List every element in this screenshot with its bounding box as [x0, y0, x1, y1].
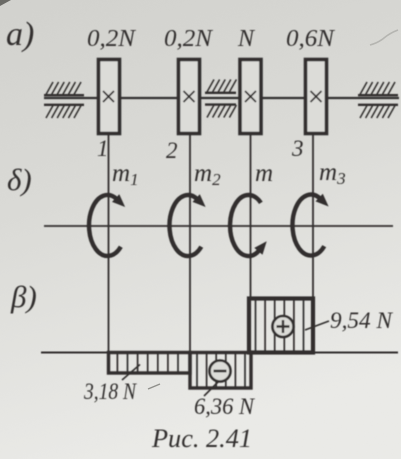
cross mark pulley 1: [103, 91, 114, 102]
moment arrow m1: [89, 194, 125, 256]
minus sign circle: [210, 361, 231, 382]
svg-text:0,2N: 0,2N: [164, 26, 214, 52]
svg-text:m: m: [255, 160, 273, 187]
section line 1: [108, 135, 110, 352]
torque rect 6,36N hatch: [197, 353, 245, 387]
plus sign circle: [273, 316, 294, 337]
cross mark pulley 2: [184, 91, 195, 102]
svg-text:9,54 N: 9,54 N: [330, 308, 394, 333]
leader 3,18N: [122, 365, 140, 381]
section line 3: [250, 135, 252, 298]
bearing left: [44, 82, 84, 118]
moment arrow m3: [292, 194, 328, 256]
shaft: [44, 97, 399, 99]
cross mark pulley 4: [311, 91, 322, 102]
faint smudge top-right: [370, 30, 398, 45]
svg-text:1: 1: [97, 136, 109, 161]
svg-text:2: 2: [166, 138, 178, 163]
torque rect 9,54N: [249, 299, 313, 353]
cross mark pulley 3: [245, 91, 256, 102]
svg-text:Рис. 2.41: Рис. 2.41: [151, 424, 252, 453]
pulley 3: [240, 60, 261, 134]
faint smudge mid-right: [148, 384, 160, 389]
section line 4: [312, 135, 314, 298]
bearing right: [358, 82, 398, 118]
leader 9,54N: [305, 321, 329, 330]
torque rect 3,18N: [109, 353, 191, 374]
torque rect 3,18N hatch: [117, 353, 178, 372]
torque diagram baseline: [41, 352, 398, 354]
axis of moments: [44, 225, 393, 227]
bearing middle: [205, 80, 236, 118]
torque rect 6,36N: [190, 353, 251, 389]
svg-text:β): β): [10, 279, 37, 314]
pulley 2: [179, 60, 200, 134]
svg-text:3,18 N: 3,18 N: [83, 379, 137, 404]
pulley 4: [306, 60, 327, 134]
svg-text:0,6N: 0,6N: [286, 26, 336, 52]
leader 6,36N: [204, 381, 219, 396]
torque rect 9,54N hatch: [256, 299, 304, 352]
moment arrow m (driving): [230, 195, 267, 256]
svg-text:N: N: [237, 26, 256, 52]
corner mark top-left: [0, 0, 11, 6]
svg-text:6,36 N: 6,36 N: [194, 394, 256, 419]
section line 2: [189, 135, 191, 352]
svg-text:δ): δ): [7, 162, 32, 197]
svg-text:3: 3: [291, 136, 304, 161]
pulley 1: [99, 60, 120, 134]
svg-text:0,2N: 0,2N: [87, 26, 137, 52]
svg-text:а): а): [6, 16, 34, 53]
moment arrow m2: [169, 194, 205, 256]
